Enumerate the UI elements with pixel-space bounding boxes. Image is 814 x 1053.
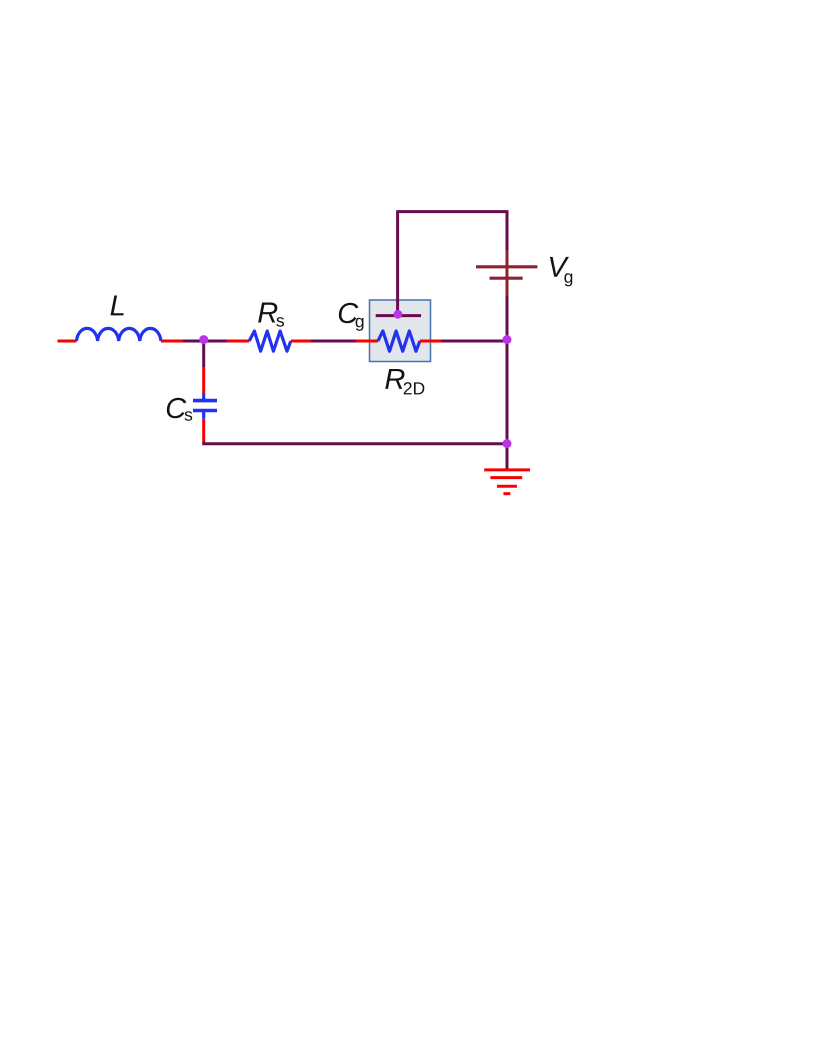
resistor Rs: [249, 331, 291, 351]
label R2D: [385, 369, 404, 389]
wire node D to ground purple: [506, 444, 509, 469]
label Rs: [258, 303, 277, 323]
wire middle purple: [311, 340, 356, 343]
wire node A down purple: [202, 343, 205, 368]
wire bottom purple: [204, 442, 507, 444]
wire down to Cs red: [202, 368, 205, 394]
battery Vg bottom plate: [490, 277, 523, 280]
wire to node B purple: [441, 340, 507, 343]
label Cg: [339, 303, 358, 324]
capacitor Cs bottom lead blue: [202, 412, 205, 419]
label L: [111, 295, 124, 315]
wire node A right purple: [204, 340, 227, 343]
battery Vg lead maroon: [506, 250, 509, 296]
wire L to node A red: [161, 340, 183, 343]
capacitor Cs top plate: [193, 399, 217, 403]
ground: [484, 470, 530, 494]
node B dot: [503, 335, 512, 344]
capacitor Cg gate plate: [376, 314, 421, 317]
wire Cs down red: [202, 419, 205, 442]
wire Rs to purple red: [291, 340, 311, 343]
battery Vg top plate: [476, 265, 537, 268]
capacitor Cs top lead blue: [202, 393, 205, 399]
wire input stub red: [58, 340, 77, 343]
node A dot: [199, 335, 208, 344]
inductor L: [77, 328, 161, 341]
label Cs: [167, 398, 186, 419]
wire to Rs red: [227, 340, 249, 343]
wire node B down to node D purple: [506, 341, 509, 444]
capacitor Cs bottom plate: [193, 409, 217, 413]
R2D shaded box: [370, 300, 431, 362]
label Vg: [550, 257, 569, 277]
node D dot: [503, 439, 512, 448]
wire node A left purple: [183, 340, 204, 343]
node C gate dot: [394, 310, 403, 319]
wire into box red: [356, 340, 378, 343]
wire gate top loop purple: [398, 212, 507, 341]
resistor R2D: [378, 331, 420, 351]
wire out of box red: [420, 340, 441, 343]
